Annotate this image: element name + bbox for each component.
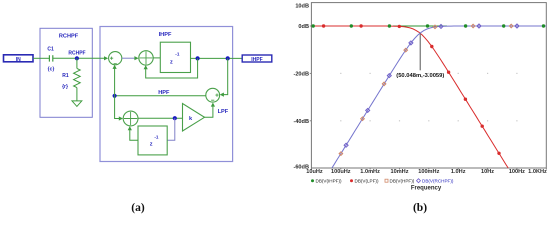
svg-text:DB(V(LPF)): DB(V(LPF)) [355, 179, 379, 184]
svg-text:z: z [170, 60, 173, 66]
markers blue diamonds [344, 24, 519, 147]
summer S1 [109, 52, 122, 65]
wire k to S3 bottom [205, 106, 213, 117]
svg-text:z: z [150, 141, 153, 147]
input port IN [4, 55, 34, 63]
svg-text:LPF: LPF [218, 109, 229, 115]
summer S4 [123, 111, 138, 126]
resistor R1 [62, 68, 80, 90]
svg-text:0dB: 0dB [298, 24, 309, 30]
capacitor C1 [49, 55, 52, 61]
x axis ticks [311, 168, 546, 170]
svg-text:DB(V(RCHPF)): DB(V(RCHPF)) [422, 179, 454, 184]
subcircuit box RCHPF [40, 28, 92, 117]
svg-text:k: k [189, 116, 193, 122]
svg-text:RCHPF: RCHPF [68, 50, 85, 56]
svg-text:1.0Hz: 1.0Hz [451, 169, 466, 175]
wire IN to C1 [33, 57, 49, 59]
svg-text:{r}: {r} [62, 84, 68, 90]
node A [196, 56, 200, 60]
feedback wire node B to S3 [224, 58, 228, 94]
wire Z1 to output port [191, 57, 243, 59]
svg-text:(50.048m,-3.0059): (50.048m,-3.0059) [396, 73, 444, 79]
svg-text:DB(V(HPF)): DB(V(HPF)) [390, 179, 415, 184]
svg-text:100mHz: 100mHz [418, 169, 439, 175]
ground [72, 101, 82, 107]
svg-text:-40dB: -40dB [293, 119, 309, 125]
delay block Z1 [160, 42, 190, 72]
arrow into S3 bottom [211, 103, 215, 107]
wire S2 to Z1 [153, 57, 160, 59]
arrow into S2 [134, 56, 138, 60]
arrow into S4 left [119, 116, 123, 120]
svg-text:1.0mHz: 1.0mHz [360, 169, 380, 175]
markers red dots [322, 24, 501, 155]
svg-text:{c}: {c} [48, 67, 55, 73]
gain k [183, 104, 205, 132]
svg-text:10uHz: 10uHz [306, 169, 323, 175]
feedback wire node A to S2 [146, 58, 198, 78]
svg-text:-1: -1 [175, 52, 180, 57]
x axis tick labels [306, 169, 547, 175]
svg-text:DB(V(IHPF)): DB(V(IHPF)) [316, 179, 342, 184]
delay block Z2 [138, 126, 167, 155]
wire S1 to S2 [122, 57, 135, 59]
svg-text:10Hz: 10Hz [481, 169, 494, 175]
svg-text:IHPF: IHPF [251, 57, 262, 63]
wire S4 to gain k [138, 117, 183, 119]
node HPF junction [113, 94, 117, 98]
arrow into summer S1 [104, 56, 108, 60]
wire junction down to S4 [115, 96, 120, 119]
arrow into S4 bottom [128, 126, 132, 130]
cursor line [419, 34, 421, 71]
plot frame [311, 3, 546, 168]
wire HPF from S3 to junction [115, 95, 206, 97]
trace LPF red [311, 26, 508, 168]
node B [226, 56, 230, 60]
wire R1 to ground [76, 88, 78, 101]
wire junction up to S1 [114, 68, 116, 96]
svg-text:(b): (b) [413, 202, 427, 214]
svg-text:C1: C1 [47, 47, 54, 53]
svg-text:-1: -1 [154, 135, 159, 140]
svg-text:IHPF: IHPF [159, 32, 172, 38]
svg-text:1.0KHz: 1.0KHz [528, 169, 547, 175]
wire C1 to node RCHPF to IHPF box [53, 57, 105, 59]
wire node to R1 [76, 58, 78, 68]
subcircuit box IHPF [100, 27, 233, 162]
y axis labels [293, 4, 309, 171]
node RCHPF [68, 50, 85, 60]
node C junction [173, 116, 177, 120]
y axis ticks [310, 26, 312, 121]
svg-text:HPF: HPF [158, 90, 170, 96]
grid dots [340, 73, 517, 122]
svg-text:100Hz: 100Hz [509, 169, 525, 175]
markers green dots [312, 24, 546, 27]
summer S2 [139, 51, 153, 65]
summer S3 [206, 88, 220, 102]
markers orange diamonds [339, 24, 513, 155]
svg-text:RCHPF: RCHPF [59, 34, 79, 40]
svg-text:(a): (a) [131, 202, 145, 214]
arrow into S3 right [220, 93, 224, 97]
legend [311, 179, 454, 184]
arrow into S1 bottom [113, 65, 117, 69]
svg-text:-20dB: -20dB [293, 71, 309, 77]
svg-text:R1: R1 [62, 73, 69, 79]
svg-text:IN: IN [16, 57, 21, 63]
wire Z2 to S4 bottom [130, 130, 138, 140]
svg-text:Frequency: Frequency [411, 186, 442, 192]
output port IHPF [242, 55, 272, 63]
trace HPF/RCHPF blue [332, 26, 546, 168]
svg-text:100uHz: 100uHz [331, 169, 351, 175]
arrow into S2 bottom [144, 65, 148, 69]
svg-text:10dB: 10dB [295, 4, 309, 10]
svg-text:10mHz: 10mHz [390, 169, 408, 175]
wire junction C to Z2 [167, 118, 175, 140]
